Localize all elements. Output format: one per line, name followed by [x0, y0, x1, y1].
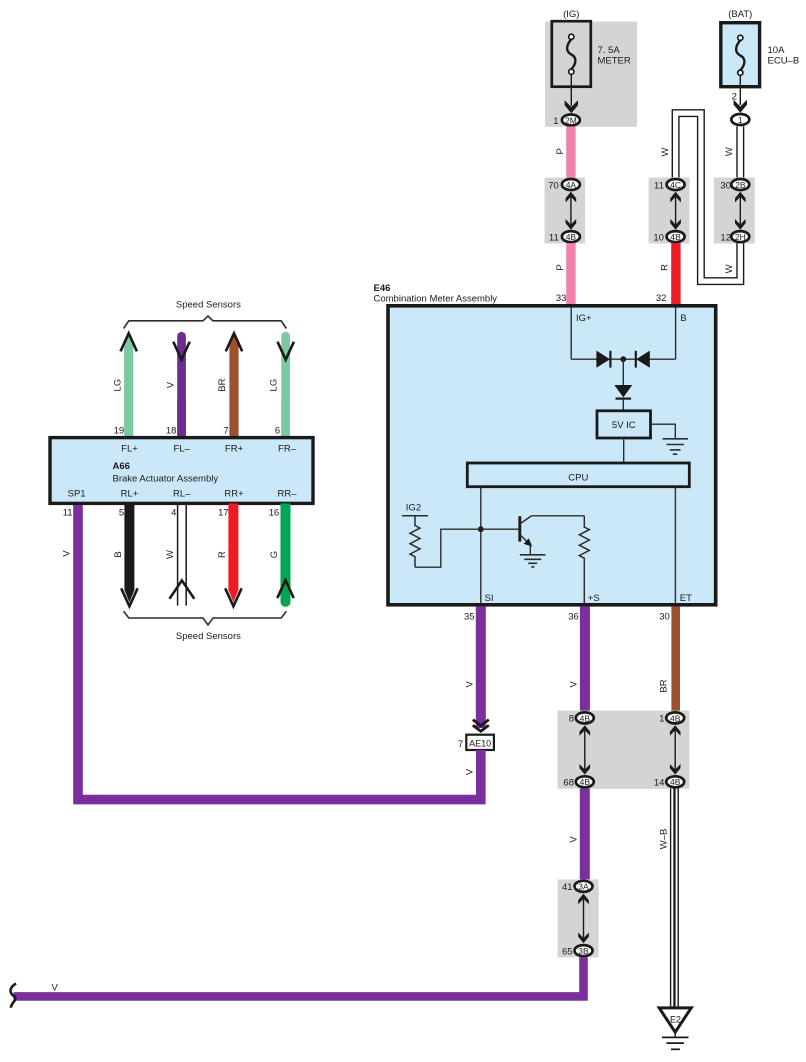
- svg-text:17: 17: [218, 507, 229, 518]
- svg-text:33: 33: [556, 293, 567, 304]
- regulator 5V IC: [597, 411, 651, 438]
- connector 4B pin 1: [659, 712, 684, 724]
- svg-text:2H: 2H: [735, 232, 746, 242]
- svg-text:68: 68: [563, 778, 574, 789]
- svg-text:6: 6: [275, 426, 280, 437]
- svg-text:12: 12: [720, 232, 731, 243]
- svg-text:4C: 4C: [670, 180, 681, 190]
- wire ET line CPU to pin 30: [674, 487, 676, 604]
- svg-text:FR+: FR+: [225, 443, 244, 454]
- connector 4C pin 11: [654, 179, 685, 191]
- inter-connector arrows 8-68: [580, 725, 591, 774]
- junction connector 4C/4B gray box: [649, 178, 690, 244]
- connector 4B pin 14: [654, 776, 684, 788]
- fuse 10A ECU-B: [721, 23, 799, 87]
- svg-text:2B: 2B: [735, 180, 746, 190]
- svg-text:IG+: IG+: [576, 313, 592, 324]
- wire diode row horizontal: [571, 358, 675, 360]
- wire V (violet) 3B down and left off-page: [14, 957, 584, 996]
- svg-text:35: 35: [464, 612, 475, 623]
- svg-text:10: 10: [653, 232, 664, 243]
- svg-text:FL+: FL+: [121, 443, 138, 454]
- junction connector 4A/4B gray box: [545, 178, 586, 244]
- diode D1 (from IG+): [596, 351, 610, 368]
- svg-text:8: 8: [569, 714, 574, 725]
- svg-text:32: 32: [656, 293, 667, 304]
- inter-connector arrows 4C-4B: [670, 192, 681, 230]
- wire B sensor RL+ (down arrow): [113, 503, 138, 606]
- svg-text:E46: E46: [374, 283, 391, 294]
- svg-text:V: V: [465, 768, 476, 775]
- fuse 7.5A METER: [552, 21, 631, 87]
- svg-text:V: V: [568, 836, 579, 843]
- inter-connector arrows 1-14: [670, 725, 681, 774]
- label (IG): [563, 9, 579, 20]
- wire LG sensor FR- (down arrow): [269, 332, 294, 438]
- svg-text:5: 5: [119, 507, 124, 518]
- connector 3A pin 41: [562, 881, 592, 893]
- svg-text:AE10: AE10: [469, 739, 491, 749]
- svg-text:ECU–B: ECU–B: [768, 55, 800, 66]
- svg-text:CPU: CPU: [568, 472, 588, 483]
- diode D2 (from B): [636, 351, 650, 368]
- connector 2H pin 12: [720, 231, 749, 243]
- wire W (double line) connector 1 to 2B: [724, 126, 744, 177]
- svg-text:B: B: [113, 551, 124, 557]
- svg-text:3B: 3B: [578, 946, 589, 956]
- svg-text:BR: BR: [659, 679, 670, 692]
- connector 4A pin 70: [548, 179, 580, 191]
- wire 5V IC to CPU: [623, 438, 625, 463]
- node IG2 terminal: [402, 502, 428, 515]
- wire V (violet) pin 36 to connector 8/4B: [569, 606, 590, 711]
- svg-text:LG: LG: [269, 379, 280, 392]
- svg-text:30: 30: [659, 612, 670, 623]
- svg-text:Speed Sensors: Speed Sensors: [176, 299, 241, 310]
- A66 Brake Actuator Assembly box: [50, 438, 313, 504]
- svg-text:4B: 4B: [670, 713, 681, 723]
- diode D3 (down): [614, 385, 632, 399]
- svg-text:Speed Sensors: Speed Sensors: [176, 631, 241, 642]
- svg-text:W: W: [165, 550, 176, 559]
- E46 designation text: [374, 283, 498, 305]
- node junction dot: [620, 356, 626, 362]
- svg-text:SI: SI: [485, 593, 494, 604]
- pin 32 label: [656, 293, 667, 304]
- svg-text:B: B: [680, 313, 686, 324]
- svg-text:4B: 4B: [580, 713, 591, 723]
- wire IG2 resistor to base: [415, 529, 519, 567]
- svg-text:V: V: [52, 982, 59, 993]
- svg-text:2M: 2M: [565, 115, 577, 125]
- wire P (pink) 2M to 4A: [555, 127, 576, 178]
- svg-text:V: V: [569, 680, 580, 687]
- svg-text:P: P: [555, 148, 566, 154]
- pin numbers 11 5 4 17 16: [63, 507, 279, 518]
- wire collector to resistor R2: [532, 515, 585, 517]
- svg-text:METER: METER: [598, 55, 631, 66]
- svg-text:7: 7: [458, 739, 463, 750]
- wire W-B (white-black) 14/4B to ground E2: [658, 789, 679, 1008]
- svg-text:7: 7: [223, 426, 228, 437]
- wire W sensor RL- (up arrow): [165, 503, 194, 605]
- svg-text:3A: 3A: [578, 882, 589, 892]
- wire from BAT fuse to connector 1, pin 2: [732, 75, 747, 113]
- svg-text:+S: +S: [588, 593, 600, 604]
- pin labels SI +S ET: [485, 593, 693, 604]
- splice double chevron into AE10: [473, 720, 489, 732]
- svg-text:RR–: RR–: [277, 488, 297, 499]
- svg-text:Combination Meter Assembly: Combination Meter Assembly: [374, 294, 498, 305]
- ground (emitter): [520, 545, 546, 567]
- Speed Sensors bottom brace and label: [124, 611, 287, 642]
- junction connector 4B/4B gray box: [557, 711, 689, 789]
- svg-text:RL–: RL–: [173, 488, 191, 499]
- pin numbers 35 36 30: [464, 612, 670, 623]
- pin numbers 19 18 7 6: [114, 426, 281, 437]
- connector 1: [731, 114, 749, 125]
- svg-text:4B: 4B: [670, 777, 681, 787]
- svg-text:11: 11: [63, 507, 73, 518]
- svg-text:Brake Actuator Assembly: Brake Actuator Assembly: [113, 473, 219, 484]
- svg-text:70: 70: [548, 180, 559, 191]
- A66 labels: [121, 443, 297, 454]
- svg-text:V: V: [165, 381, 176, 388]
- svg-text:SP1: SP1: [68, 488, 86, 499]
- svg-text:W: W: [660, 147, 671, 156]
- Speed Sensors top label and brace: [124, 299, 287, 328]
- svg-text:1: 1: [659, 714, 664, 725]
- svg-text:11: 11: [654, 180, 664, 191]
- svg-text:FR–: FR–: [278, 443, 297, 454]
- transistor Q1: [520, 516, 533, 547]
- connector 3B pin 65: [562, 945, 592, 957]
- inter-connector arrows 4A-4B: [566, 192, 577, 230]
- svg-text:11: 11: [549, 232, 559, 243]
- pin 33 label: [556, 293, 567, 304]
- CPU block: [467, 463, 689, 487]
- svg-text:4A: 4A: [566, 180, 577, 190]
- svg-text:IG2: IG2: [406, 502, 421, 513]
- svg-text:ET: ET: [680, 593, 692, 604]
- wire P (pink) 4B to E46 pin 33: [555, 243, 576, 306]
- wire BR sensor FR+ (up arrow): [217, 333, 242, 438]
- svg-text:LG: LG: [113, 379, 124, 392]
- splice AE10 pin 7: [458, 735, 494, 750]
- ground E2: [659, 1008, 691, 1049]
- label (BAT): [728, 9, 752, 20]
- svg-text:36: 36: [568, 612, 579, 623]
- wire V (violet) pin 35 to splice AE10: [465, 606, 486, 728]
- svg-text:A66: A66: [113, 461, 130, 472]
- svg-text:19: 19: [114, 426, 125, 437]
- svg-text:4B: 4B: [670, 232, 681, 242]
- svg-text:65: 65: [562, 946, 573, 957]
- junction connector 2B/2H gray box: [714, 178, 755, 244]
- wire V AE10 down, left to SP1, up to A66: [78, 503, 481, 799]
- wire R (red) 4B to E46 pin 32: [660, 243, 681, 306]
- svg-text:4B: 4B: [580, 777, 591, 787]
- wire SI line CPU to pin 35: [480, 487, 482, 604]
- off-page continuation squiggle: [10, 984, 16, 1008]
- svg-text:W: W: [724, 147, 735, 156]
- svg-text:4: 4: [171, 507, 176, 518]
- svg-text:5V IC: 5V IC: [612, 420, 636, 431]
- connector 4B pin 10: [653, 231, 684, 243]
- svg-text:1: 1: [738, 115, 743, 125]
- inter-connector arrows 2B-2H: [735, 192, 746, 230]
- wire BR (brown) pin 30 to connector 1/4B: [659, 606, 680, 711]
- node IG+ internal line: [571, 308, 592, 360]
- svg-text:FL–: FL–: [174, 443, 191, 454]
- wire R sensor RR+ (down arrow): [217, 503, 242, 606]
- svg-text:16: 16: [269, 507, 280, 518]
- svg-text:W: W: [724, 264, 735, 273]
- connector 4B pin 11: [549, 231, 580, 243]
- node junction dot on SI line: [478, 526, 484, 532]
- svg-text:(IG): (IG): [563, 9, 579, 20]
- svg-text:(BAT): (BAT): [728, 9, 752, 20]
- resistor R1 (IG2): [410, 516, 420, 567]
- svg-text:14: 14: [654, 778, 665, 789]
- svg-text:41: 41: [562, 882, 573, 893]
- wire W routed 2H down-left-up-over-down to 4C: [660, 110, 744, 285]
- connector 4B pin 8: [569, 712, 594, 724]
- svg-text:V: V: [61, 550, 72, 557]
- svg-text:1: 1: [553, 116, 558, 127]
- wire G sensor RR- (up arrow): [269, 503, 294, 607]
- connector 2M pin 1: [553, 115, 580, 128]
- svg-text:18: 18: [166, 426, 177, 437]
- svg-text:RL+: RL+: [121, 488, 139, 499]
- inter-connector arrows 3A-3B: [578, 894, 589, 943]
- svg-text:W–B: W–B: [658, 829, 669, 850]
- wire D3 to 5V IC: [622, 399, 624, 411]
- svg-text:R: R: [217, 551, 228, 558]
- svg-text:RR+: RR+: [224, 488, 244, 499]
- wire junction to diode D3: [622, 359, 624, 386]
- ground (5V IC): [651, 424, 688, 454]
- gray background panel behind IG fuse: [545, 22, 637, 127]
- svg-text:V: V: [465, 680, 476, 687]
- E46 Combination Meter Assembly box: [388, 306, 716, 605]
- svg-text:P: P: [555, 264, 566, 270]
- wire V sensor FL- (down arrow): [165, 332, 189, 438]
- svg-text:G: G: [269, 551, 280, 558]
- svg-text:BR: BR: [217, 378, 228, 391]
- resistor R2 (+S pull): [579, 516, 589, 604]
- wire V (violet) 68/4B to 3A: [568, 789, 590, 881]
- svg-text:E2: E2: [670, 1015, 681, 1025]
- wire LG sensor FL+ (up arrow): [113, 333, 137, 438]
- connector 2B pin 30: [720, 179, 749, 191]
- junction connector 3A/3B gray box: [558, 879, 599, 957]
- svg-text:30: 30: [720, 180, 731, 191]
- svg-text:R: R: [660, 264, 671, 271]
- connector 4B pin 68: [563, 776, 593, 788]
- node B internal line: [676, 308, 687, 360]
- wire V SP1 label: [61, 550, 72, 557]
- svg-text:4B: 4B: [566, 232, 577, 242]
- wire from IG fuse to connector 2M: [565, 74, 578, 113]
